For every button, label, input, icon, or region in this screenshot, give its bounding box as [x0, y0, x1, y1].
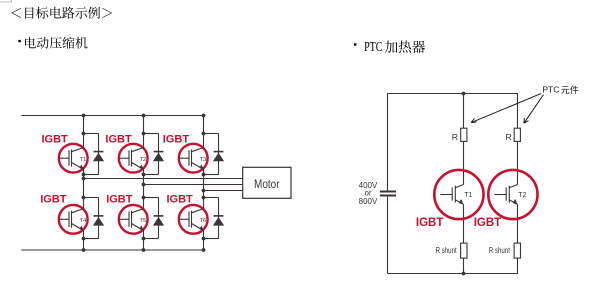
svg-text:IGBT: IGBT [474, 217, 501, 229]
svg-text:T5: T5 [140, 218, 147, 224]
svg-text:R shunt: R shunt [489, 246, 511, 255]
svg-text:R: R [452, 132, 458, 142]
svg-text:T4: T4 [80, 218, 88, 224]
svg-text:IGBT: IGBT [416, 217, 443, 229]
svg-text:R: R [506, 132, 512, 142]
svg-text:T1: T1 [80, 157, 87, 163]
svg-text:IGBT: IGBT [40, 194, 67, 206]
svg-text:IGBT: IGBT [163, 133, 190, 145]
svg-text:Motor: Motor [254, 177, 280, 191]
svg-text:PTC: PTC [364, 39, 382, 54]
svg-text:T1: T1 [464, 192, 472, 199]
svg-text:800V: 800V [359, 197, 378, 206]
svg-text:T3: T3 [200, 157, 207, 163]
svg-text:IGBT: IGBT [105, 133, 132, 145]
svg-text:T2: T2 [518, 192, 526, 199]
svg-text:R shunt: R shunt [436, 246, 458, 255]
svg-text:PTC: PTC [542, 85, 559, 95]
svg-text:IGBT: IGBT [106, 194, 133, 206]
svg-text:T2: T2 [140, 157, 147, 163]
svg-text:IGBT: IGBT [42, 133, 69, 145]
svg-text:T6: T6 [200, 218, 207, 224]
svg-text:IGBT: IGBT [167, 194, 194, 206]
